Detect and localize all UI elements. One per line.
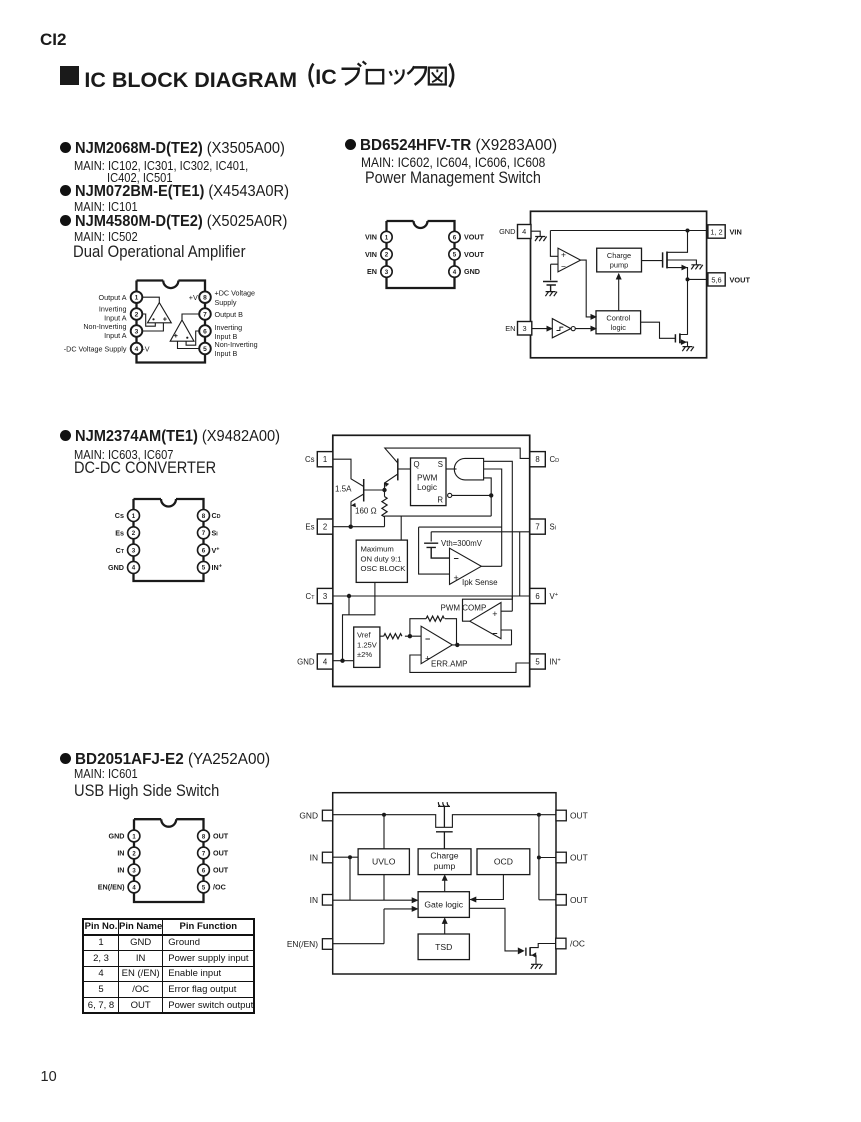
svg-text:VIN: VIN [365, 233, 377, 242]
svg-text:OUT: OUT [570, 895, 588, 905]
svg-text:OUT: OUT [213, 849, 229, 858]
svg-text:Vref: Vref [357, 631, 372, 640]
svg-text:Logic: Logic [417, 482, 437, 492]
svg-text:−: − [454, 554, 459, 564]
svg-text:+DC Voltage: +DC Voltage [215, 288, 256, 297]
svg-text:Non-Inverting: Non-Inverting [215, 340, 258, 349]
svg-text:OUT: OUT [213, 866, 229, 875]
svg-text:VOUT: VOUT [464, 233, 485, 242]
svg-text:5: 5 [453, 252, 457, 259]
svg-text:3: 3 [385, 269, 389, 276]
svg-text:IN: IN [310, 895, 318, 905]
svg-text:S: S [438, 460, 443, 469]
svg-text:−: − [492, 629, 497, 639]
svg-text:3: 3 [323, 592, 327, 601]
svg-text:Output B: Output B [215, 310, 244, 319]
svg-text:PWM COMP: PWM COMP [441, 604, 487, 613]
svg-text:Ipk Sense: Ipk Sense [462, 578, 498, 587]
svg-text:±2%: ±2% [357, 650, 372, 659]
svg-text:6: 6 [535, 592, 539, 601]
svg-text:GND: GND [297, 657, 315, 666]
svg-text:1: 1 [323, 455, 327, 464]
svg-text:EN(/EN): EN(/EN) [98, 883, 125, 892]
svg-text:pump: pump [610, 260, 629, 269]
svg-text:OUT: OUT [213, 832, 229, 841]
svg-text:SI: SI [550, 522, 557, 531]
svg-text:+: + [561, 250, 566, 260]
svg-text:IN+: IN+ [212, 563, 222, 572]
svg-text:CD: CD [212, 511, 221, 520]
svg-text:1, 2: 1, 2 [710, 227, 722, 236]
svg-text:IN: IN [310, 852, 318, 862]
svg-text:Es: Es [305, 522, 314, 531]
svg-text:−: − [561, 262, 566, 272]
svg-text:Output A: Output A [99, 293, 127, 302]
svg-text:5,6: 5,6 [711, 275, 721, 284]
svg-text:SI: SI [212, 529, 219, 538]
svg-text:+: + [492, 609, 497, 619]
svg-text:6: 6 [453, 234, 457, 241]
svg-text:GND: GND [499, 227, 515, 236]
svg-text:4: 4 [132, 565, 136, 572]
svg-text:2: 2 [385, 252, 389, 259]
svg-text:Es: Es [115, 529, 124, 538]
svg-text:CT: CT [116, 546, 125, 555]
svg-text:VIN: VIN [730, 227, 742, 236]
svg-text:2: 2 [323, 522, 327, 531]
svg-text:5: 5 [202, 565, 206, 572]
svg-text:160 Ω: 160 Ω [355, 507, 377, 516]
svg-text:VOUT: VOUT [730, 275, 751, 284]
svg-text:3: 3 [132, 547, 136, 554]
svg-text:VIN: VIN [365, 250, 377, 259]
svg-text:GND: GND [464, 267, 480, 276]
svg-text:2: 2 [132, 530, 136, 537]
svg-text:Inverting: Inverting [215, 323, 243, 332]
svg-text:8: 8 [535, 455, 539, 464]
svg-text:/OC: /OC [213, 883, 226, 892]
svg-text:+: + [454, 573, 459, 583]
svg-text:4: 4 [522, 227, 526, 236]
svg-text:Charge: Charge [430, 851, 458, 861]
svg-text:4: 4 [453, 269, 457, 276]
svg-text:TSD: TSD [435, 942, 452, 952]
svg-text:OCD: OCD [494, 857, 513, 867]
svg-text:CD: CD [550, 455, 560, 464]
svg-text:−: − [425, 634, 430, 644]
svg-text:CT: CT [305, 592, 315, 601]
svg-text:OUT: OUT [570, 810, 588, 820]
svg-text:IN+: IN+ [550, 657, 562, 666]
svg-text:1.5A: 1.5A [335, 485, 352, 494]
svg-text:V+: V+ [550, 592, 559, 601]
svg-text:7: 7 [203, 311, 207, 318]
svg-text:Supply: Supply [215, 298, 237, 307]
svg-text:6: 6 [203, 328, 207, 335]
svg-text:1: 1 [135, 295, 139, 302]
svg-text:UVLO: UVLO [372, 857, 396, 867]
svg-text:Cs: Cs [305, 455, 315, 464]
svg-text:PWM: PWM [417, 473, 437, 483]
svg-text:1: 1 [132, 513, 136, 520]
svg-text:Vth=300mV: Vth=300mV [441, 539, 483, 548]
svg-text:logic: logic [611, 323, 627, 332]
svg-text:Input B: Input B [215, 349, 238, 358]
svg-text:8: 8 [202, 513, 206, 520]
svg-text:Charge: Charge [607, 251, 631, 260]
svg-text:7: 7 [535, 522, 539, 531]
svg-text:Input A: Input A [104, 331, 127, 340]
svg-text:V+: V+ [212, 546, 220, 555]
svg-text:ON duty 9:1: ON duty 9:1 [361, 554, 402, 563]
svg-text:6: 6 [202, 547, 206, 554]
svg-text:1: 1 [385, 234, 389, 241]
svg-text:+: + [425, 654, 430, 664]
svg-text:EN(/EN): EN(/EN) [287, 939, 318, 949]
svg-text:-DC Voltage Supply: -DC Voltage Supply [64, 344, 127, 353]
svg-text:EN: EN [367, 267, 377, 276]
svg-text:2: 2 [135, 311, 139, 318]
svg-text:5: 5 [203, 346, 207, 353]
svg-text:ERR.AMP: ERR.AMP [431, 660, 467, 669]
svg-text:Non-Inverting: Non-Inverting [83, 322, 126, 331]
svg-text:GND: GND [299, 810, 318, 820]
svg-text:Control: Control [606, 314, 630, 323]
svg-text:7: 7 [202, 530, 206, 537]
svg-text:/OC: /OC [570, 938, 585, 948]
svg-text:Q: Q [414, 460, 420, 469]
svg-text:R: R [437, 496, 443, 505]
svg-text:Gate logic: Gate logic [424, 900, 463, 910]
svg-text:Cs: Cs [115, 511, 124, 520]
svg-text:+V: +V [189, 293, 198, 302]
svg-text:4: 4 [323, 657, 328, 666]
svg-text:EN: EN [505, 324, 515, 333]
svg-text:Inverting: Inverting [99, 304, 127, 313]
svg-text:1.25V: 1.25V [357, 640, 378, 649]
svg-text:3: 3 [523, 324, 527, 333]
svg-text:pump: pump [434, 861, 456, 871]
svg-text:8: 8 [203, 295, 207, 302]
svg-text:OUT: OUT [570, 852, 588, 862]
svg-text:GND: GND [109, 832, 125, 841]
svg-text:Maximum: Maximum [361, 545, 394, 554]
svg-text:IN: IN [117, 849, 124, 858]
svg-text:IC: IC [315, 65, 337, 89]
svg-text:GND: GND [108, 563, 124, 572]
svg-text:3: 3 [135, 328, 139, 335]
svg-text:4: 4 [135, 346, 139, 353]
svg-text:5: 5 [535, 657, 540, 666]
svg-text:IN: IN [117, 866, 124, 875]
svg-text:OSC BLOCK: OSC BLOCK [361, 564, 407, 573]
svg-text:VOUT: VOUT [464, 250, 485, 259]
svg-text:-V: -V [142, 344, 149, 353]
